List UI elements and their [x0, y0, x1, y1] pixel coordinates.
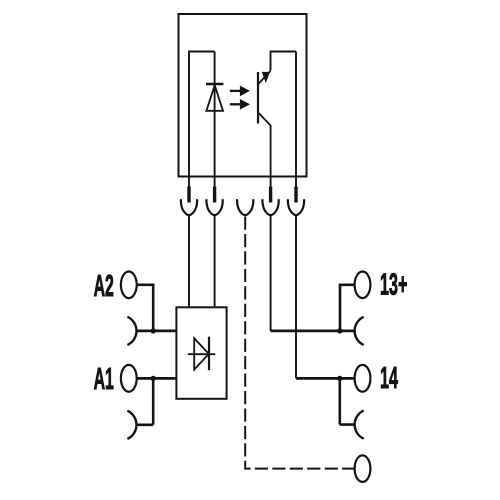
terminal 14 — [355, 365, 371, 392]
diode D2 wire — [188, 353, 215, 355]
pin 1 lead — [188, 177, 190, 188]
wire: pin 5 down to 14 node — [295, 216, 297, 379]
transistor Q1 base bar — [257, 72, 259, 124]
wire: node row 1 from pin 4 to bridge — [271, 329, 355, 332]
optocoupler body U1 — [179, 14, 307, 177]
svg-text:14: 14 — [380, 362, 398, 396]
wire: A2 to node row 1 — [137, 285, 154, 331]
bridge socket contact right 1 — [355, 317, 364, 345]
wire: pin 3 dashed drop and run to spare terminal — [245, 217, 354, 469]
bridge socket contact left 1 — [127, 317, 136, 345]
pin 2 lead — [214, 177, 216, 188]
light arrow 2 — [230, 99, 250, 110]
pin 1 contact blade — [187, 187, 190, 203]
bridge socket contact left 2 — [127, 411, 136, 439]
pin 3 socket cup — [237, 199, 253, 215]
pin 1 socket cup — [181, 199, 197, 215]
node A2 junction — [151, 328, 156, 333]
pin 4 lead — [270, 177, 272, 188]
LED D1 cathode bar — [206, 83, 223, 85]
node 14 junction — [337, 376, 342, 381]
svg-text:A2: A2 — [94, 270, 114, 304]
wire: pin 4 down to 13+ node — [270, 216, 272, 331]
terminal A2 — [121, 272, 137, 299]
transistor Q1 emitter lead — [258, 113, 270, 177]
svg-text:A1: A1 — [94, 363, 114, 397]
terminal A1 — [121, 365, 137, 392]
wire: A1 into input block — [137, 377, 177, 380]
terminal 13+ — [355, 272, 371, 299]
wire: A1 node down to lower bridge — [136, 378, 153, 424]
transistor Q1 collector lead — [258, 71, 270, 84]
pin 2 socket cup — [206, 199, 222, 215]
wire: output frame (collector rail, top bridge, pin5 rail) — [271, 52, 297, 177]
node A1 junction — [151, 376, 156, 381]
LED D1 triangle — [206, 85, 223, 111]
transistor Q1 collector arrowhead — [262, 72, 270, 83]
pin 4 socket cup — [262, 199, 278, 215]
wire: LED input frame (pin1 rail, top bridge, pin2 rail) — [189, 52, 215, 177]
diode D2 cathode bar — [208, 337, 210, 371]
bridge socket contact right 2 — [355, 411, 364, 439]
wire: pin 1 to input block — [188, 216, 190, 308]
wire: pin 2 to input block — [214, 216, 216, 308]
pin 5 contact blade — [294, 187, 297, 203]
pin 2 contact blade — [213, 187, 216, 203]
diode D2 triangle — [194, 338, 209, 369]
wire: 14 node down to lower bridge — [340, 378, 355, 424]
pin 5 socket cup — [288, 199, 304, 215]
pin 4 contact blade — [269, 187, 272, 203]
node 13+ junction — [337, 328, 342, 333]
input protection block — [176, 307, 226, 399]
spare terminal (unlabeled) — [355, 455, 371, 482]
wire: 13+ down to node row 1 — [340, 285, 355, 331]
svg-text:13+: 13+ — [380, 268, 407, 302]
wire: node row 1 into input block — [136, 329, 176, 332]
pin 5 lead — [295, 177, 297, 188]
light arrow 1 — [230, 86, 250, 97]
wire: node row 2 from pin 5 to terminal 14 — [296, 377, 355, 380]
